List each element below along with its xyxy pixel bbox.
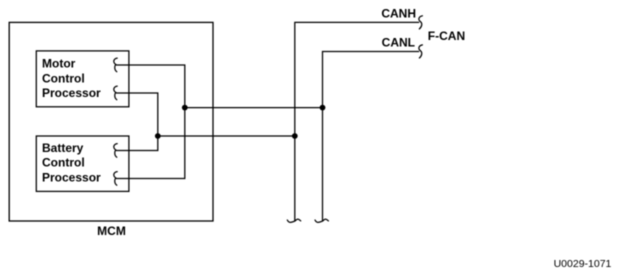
connector pin squiggle: motor pin 2	[114, 86, 117, 100]
wire: bus B2 from junction B to CANH vertical	[158, 135, 295, 137]
wire: motor pin 1 right then down to battery pin 2 (vertical x=185)	[117, 65, 185, 179]
connector pin squiggle: battery pin 2	[114, 172, 117, 186]
svg-text:Processor: Processor	[42, 86, 101, 100]
svg-text:U0029-1071: U0029-1071	[554, 258, 612, 270]
svg-text:Battery: Battery	[42, 141, 84, 155]
svg-text:CANL: CANL	[382, 35, 415, 49]
connector end squiggle: CANL wire end	[419, 45, 423, 58]
wire: motor pin 2 right then down to battery pin 1 (vertical x=158)	[117, 93, 158, 151]
svg-text:CANH: CANH	[381, 7, 416, 21]
svg-text:Control: Control	[42, 71, 85, 85]
wire: bus B1 from junction A to CANL vertical	[185, 107, 323, 109]
junction dot B (x158 bus B2)	[155, 133, 161, 139]
wire: CANL horizontal with corner down vertical V2	[323, 52, 419, 222]
svg-text:Control: Control	[42, 156, 85, 170]
svg-text:Processor: Processor	[42, 170, 101, 184]
connector end squiggle: CANH wire end	[419, 16, 423, 29]
junction dot D (B1 to V2)	[320, 105, 326, 111]
connector pin squiggle: battery pin 1	[114, 144, 117, 158]
wire break tilde: bottom of V2	[315, 219, 328, 222]
Motor Control Processor box U1	[36, 51, 129, 107]
wire break tilde: bottom of V1	[287, 219, 300, 222]
MCM enclosure box	[9, 22, 213, 221]
svg-text:Motor: Motor	[42, 57, 76, 71]
connector pin squiggle: motor pin 1	[114, 58, 117, 72]
svg-text:MCM: MCM	[97, 224, 126, 238]
svg-text:F-CAN: F-CAN	[428, 29, 465, 43]
junction dot A (x185 bus B1)	[182, 105, 188, 111]
Battery Control Processor box U2	[36, 136, 129, 191]
junction dot C (B2 to V1)	[292, 133, 298, 139]
wire: CANH horizontal with corner down vertical V1	[295, 22, 419, 221]
